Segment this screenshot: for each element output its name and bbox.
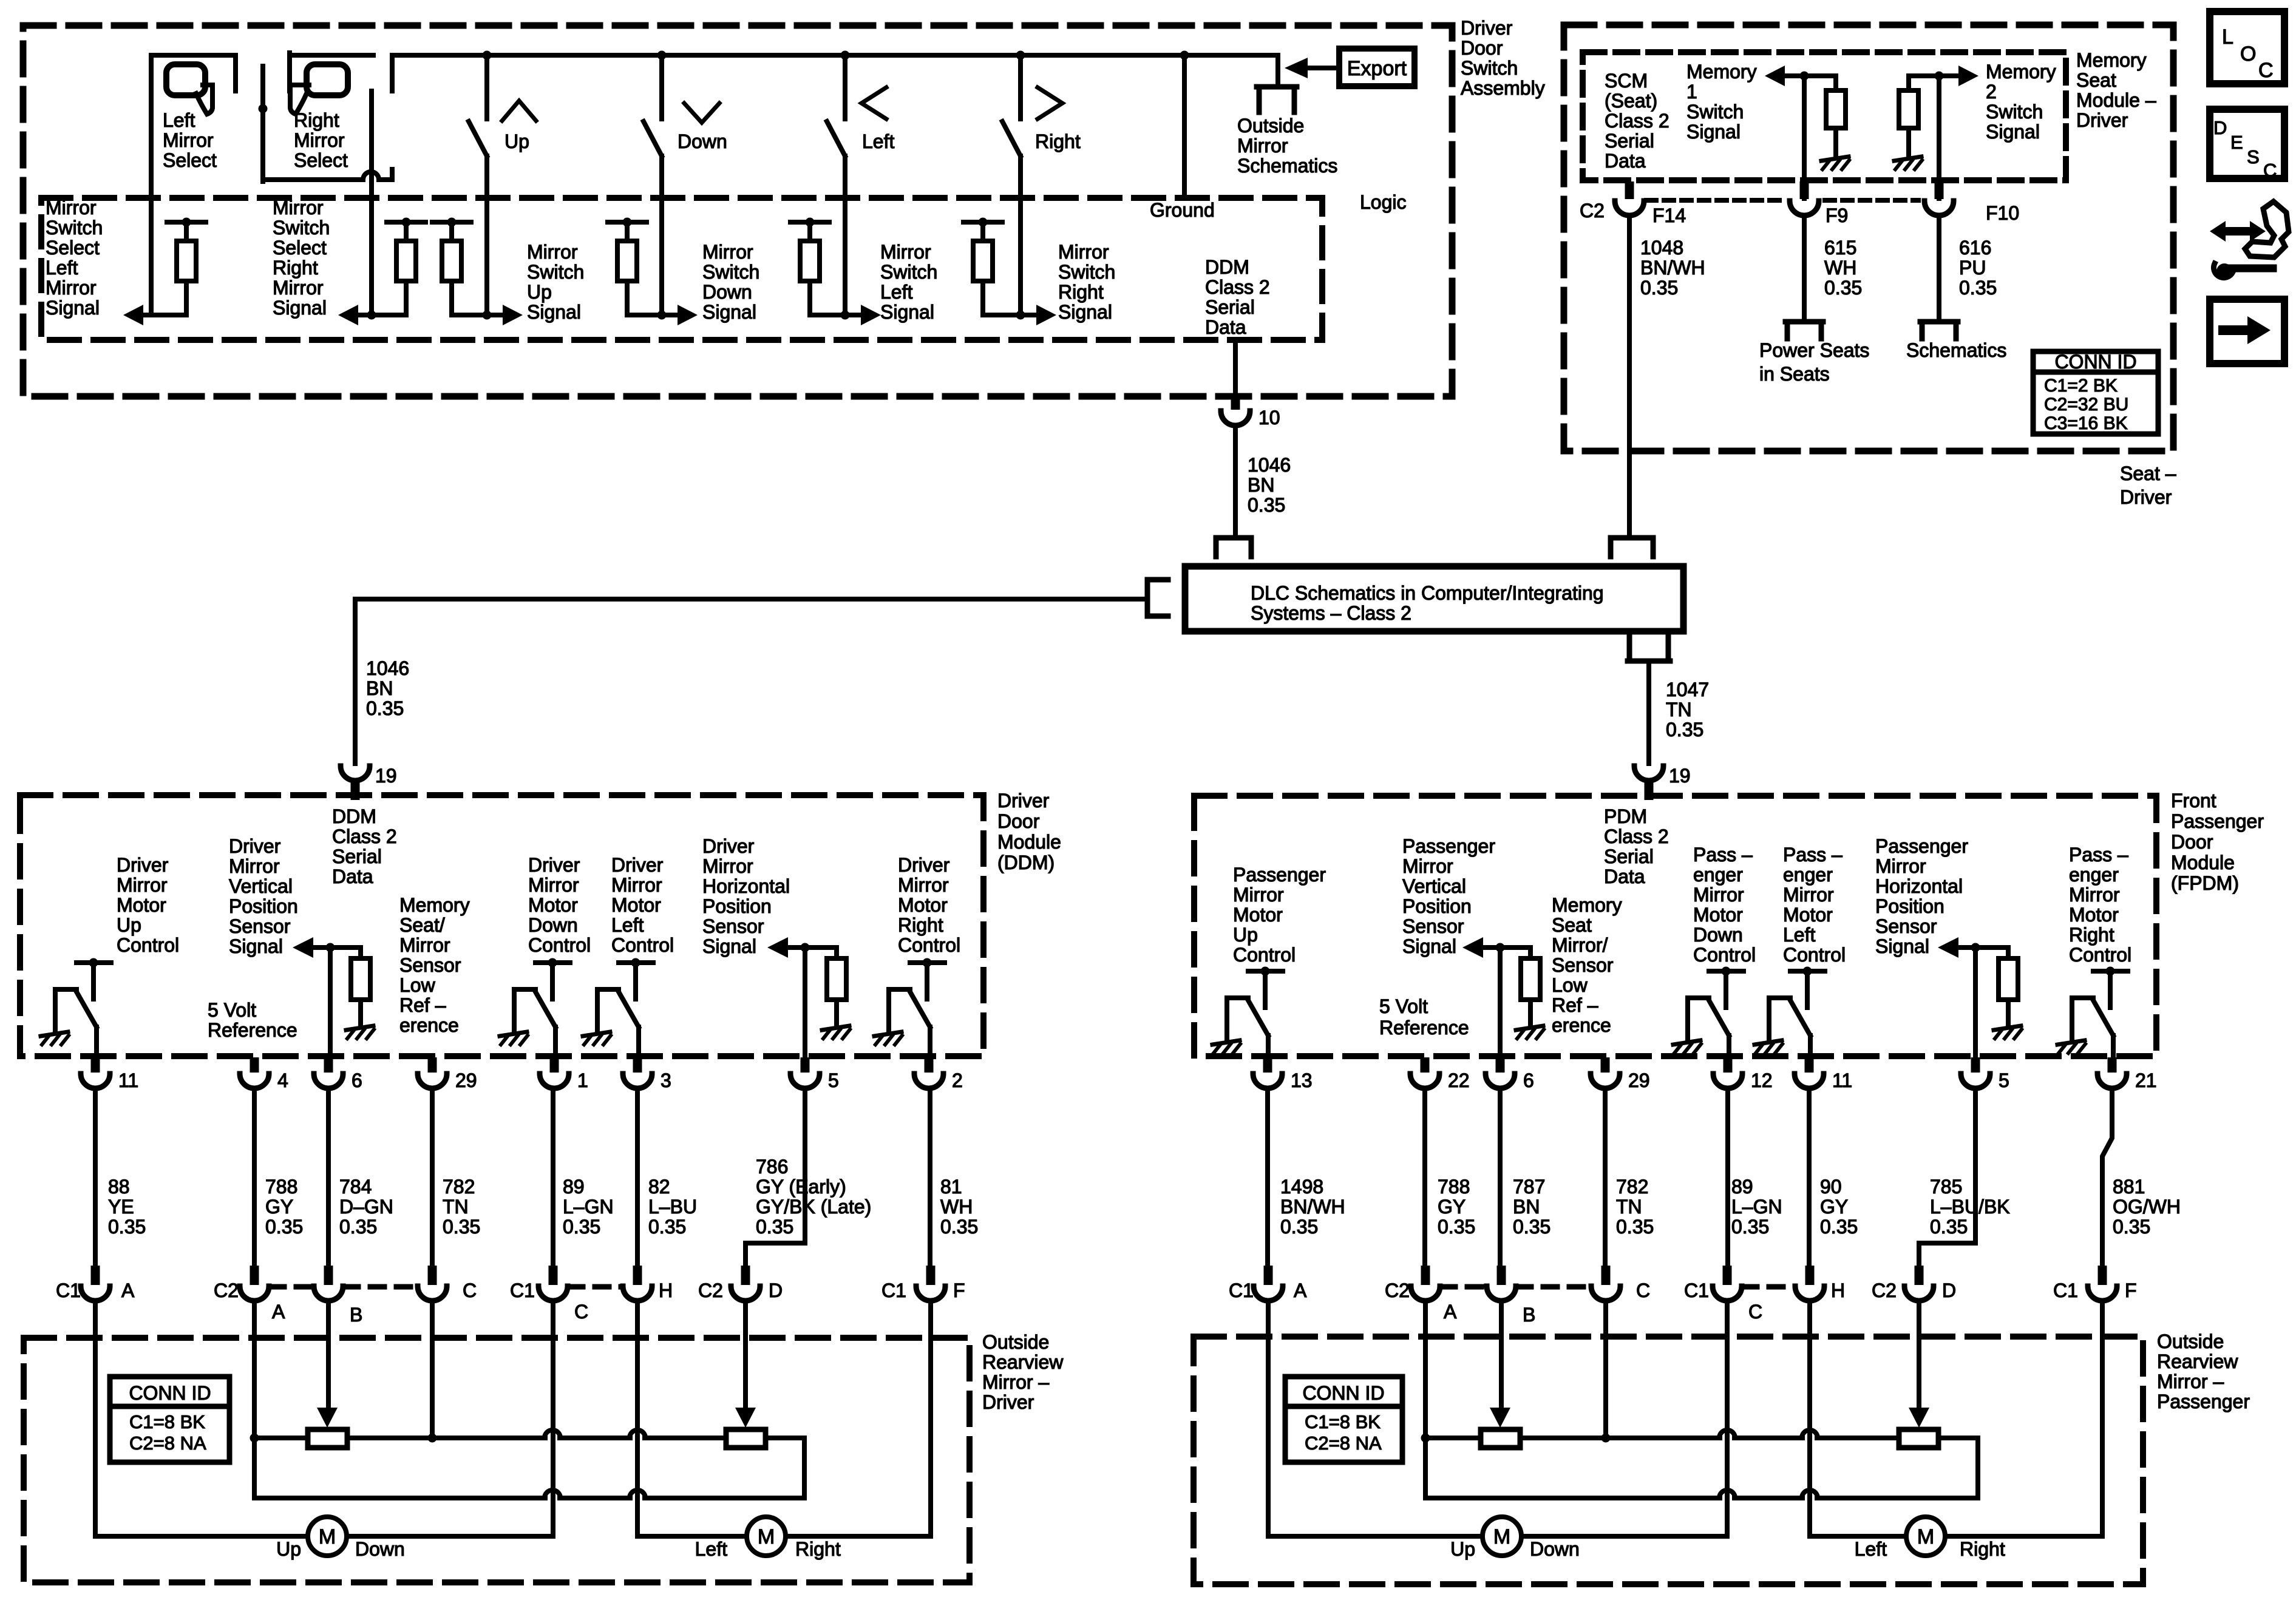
svg-text:H: H <box>659 1280 673 1301</box>
right mirror select wire/node <box>259 66 393 181</box>
svg-text:Module: Module <box>2171 852 2235 873</box>
DDM class 2 serial data label (logic) <box>1205 256 1270 338</box>
svg-text:13: 13 <box>1291 1070 1313 1091</box>
svg-text:1046: 1046 <box>1248 454 1291 476</box>
svg-text:enger: enger <box>1693 864 1743 886</box>
DDM pin 4 <box>240 1057 288 1091</box>
svg-text:615: 615 <box>1824 237 1856 259</box>
wire C1-C to up/down motor (pass) <box>1521 1302 1727 1536</box>
DDM pin 11 <box>81 1057 138 1091</box>
svg-text:Mirror: Mirror <box>1233 884 1284 906</box>
seat connector row dashed <box>1646 198 1918 203</box>
switch Right <box>1002 55 1081 320</box>
svg-text:C: C <box>1636 1280 1650 1301</box>
svg-text:Memory: Memory <box>1986 61 2056 83</box>
svg-text:(Seat): (Seat) <box>1605 90 1657 112</box>
svg-text:Up: Up <box>1233 924 1258 946</box>
svg-text:Class 2: Class 2 <box>1205 276 1270 298</box>
svg-text:784: 784 <box>339 1176 372 1198</box>
left/right motor (driver) <box>695 1517 841 1560</box>
svg-text:Schematics: Schematics <box>1237 155 1337 177</box>
connector C1 F (pass) <box>2053 1266 2137 1301</box>
svg-text:Signal: Signal <box>1058 301 1112 323</box>
svg-text:Low: Low <box>399 974 436 996</box>
connector C1 C (driver) <box>510 1266 588 1323</box>
svg-text:A: A <box>1444 1301 1457 1323</box>
svg-text:BN/WH: BN/WH <box>1280 1196 1345 1218</box>
svg-text:0.35: 0.35 <box>1666 719 1703 741</box>
svg-text:0.35: 0.35 <box>1820 1216 1858 1238</box>
vertical position pot (pass) <box>1481 1429 1520 1448</box>
svg-text:Left: Left <box>1783 924 1815 946</box>
DDM pin 6 <box>314 1057 362 1091</box>
wire 81 WH <box>930 1088 978 1266</box>
Front Passenger Door Module dashed box <box>1194 790 2264 1056</box>
connector H (pass) <box>1795 1266 1845 1301</box>
svg-text:5: 5 <box>828 1070 839 1091</box>
wire 785 L-BU/BK <box>1919 1088 2010 1266</box>
DDM pin 5 <box>790 1057 839 1091</box>
PDM serial data label <box>1604 805 1669 887</box>
svg-text:C: C <box>2263 160 2277 181</box>
svg-text:785: 785 <box>1930 1176 1962 1198</box>
svg-text:SCM: SCM <box>1605 70 1648 92</box>
svg-text:Signal: Signal <box>880 301 934 323</box>
svg-text:D: D <box>2213 117 2227 138</box>
svg-text:Left: Left <box>611 914 644 936</box>
wire D arrow into horizontal pot (pass) <box>1909 1302 1929 1428</box>
svg-text:Mirror/: Mirror/ <box>1552 934 1608 956</box>
svg-text:C2: C2 <box>1580 200 1605 222</box>
svg-text:Driver: Driver <box>898 854 950 876</box>
Outside Rearview Mirror Driver dashed box <box>24 1331 1064 1582</box>
svg-text:Pass –: Pass – <box>1693 844 1753 866</box>
svg-text:C2=32 BU: C2=32 BU <box>2044 395 2128 415</box>
svg-text:C1=8 BK: C1=8 BK <box>1305 1411 1381 1432</box>
arrow mirror switch Left signal <box>845 241 937 325</box>
svg-text:Vertical: Vertical <box>229 875 293 897</box>
svg-text:(FPDM): (FPDM) <box>2171 872 2239 894</box>
svg-text:Switch: Switch <box>1686 101 1744 123</box>
svg-text:H: H <box>1831 1280 1845 1301</box>
wire 89 L-GN (pass) <box>1728 1088 1782 1266</box>
svg-text:B: B <box>350 1304 362 1326</box>
svg-text:Driver: Driver <box>2120 486 2172 508</box>
svg-text:C1: C1 <box>881 1280 906 1301</box>
FPDM pin 29 <box>1591 1057 1650 1091</box>
svg-text:Memory: Memory <box>1552 894 1622 916</box>
svg-text:12: 12 <box>1751 1070 1773 1091</box>
svg-text:786: 786 <box>756 1156 788 1178</box>
svg-text:Horizontal: Horizontal <box>702 875 790 897</box>
svg-text:Down: Down <box>678 131 727 152</box>
wire 1498 BN/WH <box>1268 1088 1345 1266</box>
wire H to left/right motor (pass) <box>1810 1302 1906 1536</box>
svg-text:Driver: Driver <box>117 854 169 876</box>
wire label 1046 BN 0.35 (lower) <box>366 657 409 719</box>
connector C1 F (driver) <box>881 1266 965 1301</box>
passenger mirror motor right control switch <box>2057 844 2131 1056</box>
svg-text:2: 2 <box>952 1070 963 1091</box>
svg-text:BN: BN <box>1248 474 1274 496</box>
svg-text:Systems – Class 2: Systems – Class 2 <box>1251 602 1411 624</box>
svg-text:CONN ID: CONN ID <box>129 1382 211 1404</box>
svg-text:Vertical: Vertical <box>1402 875 1466 897</box>
connector C2 A (pass) <box>1385 1266 1457 1323</box>
svg-text:Sensor: Sensor <box>1402 915 1464 937</box>
bracket below DLC (1047) <box>1628 635 1670 764</box>
svg-text:Position: Position <box>1875 895 1944 917</box>
wire 787 BN <box>1500 1088 1550 1266</box>
svg-text:TN: TN <box>443 1196 469 1218</box>
svg-text:WH: WH <box>940 1196 973 1218</box>
svg-text:Logic: Logic <box>1360 191 1407 213</box>
connector C1 A (driver) <box>56 1266 135 1301</box>
bus junction at 1681 <box>1016 51 1025 60</box>
CONN ID table (seat) <box>2033 351 2158 434</box>
svg-text:C: C <box>574 1301 588 1323</box>
connector C (driver) <box>418 1266 477 1301</box>
svg-text:Position: Position <box>1402 895 1472 917</box>
svg-text:Pass –: Pass – <box>2069 844 2128 866</box>
svg-text:L–BU/BK: L–BU/BK <box>1930 1196 2010 1218</box>
wire C to pot bus (pass) <box>1603 1302 1608 1438</box>
svg-text:GY: GY <box>1820 1196 1848 1218</box>
low ref bottom line (driver) <box>254 1490 804 1498</box>
svg-text:Data: Data <box>332 866 373 887</box>
svg-text:Control: Control <box>1783 944 1846 966</box>
svg-text:Mirror: Mirror <box>1058 241 1109 263</box>
svg-text:Serial: Serial <box>1605 130 1654 152</box>
svg-text:Mirror: Mirror <box>611 874 662 896</box>
svg-text:0.35: 0.35 <box>1616 1216 1654 1238</box>
svg-text:Motor: Motor <box>117 894 166 916</box>
wire A to up/down motor (pass) <box>1268 1302 1483 1536</box>
svg-text:Sensor: Sensor <box>1875 915 1937 937</box>
wire label 1048 BN/WH 0.35 <box>1640 237 1705 299</box>
wire B arrow into vertical pot (pass) <box>1490 1302 1510 1428</box>
svg-text:TN: TN <box>1666 699 1692 720</box>
wire H to left/right motor (driver) <box>637 1302 747 1536</box>
svg-text:YE: YE <box>108 1196 134 1218</box>
svg-text:Driver: Driver <box>1461 17 1513 39</box>
5 volt reference label (DDM) <box>208 999 297 1041</box>
Driver Door Switch Assembly dashed box <box>23 17 1545 396</box>
svg-text:C3=16 BK: C3=16 BK <box>2044 413 2128 433</box>
wire 782 TN <box>432 1088 480 1266</box>
svg-text:29: 29 <box>455 1070 477 1091</box>
svg-text:L–BU: L–BU <box>648 1196 697 1218</box>
svg-text:Signal: Signal <box>229 935 283 957</box>
svg-text:Seat: Seat <box>1552 914 1592 936</box>
svg-text:WH: WH <box>1824 257 1856 279</box>
svg-text:Right: Right <box>2069 924 2114 946</box>
svg-text:F10: F10 <box>1986 202 2019 224</box>
svg-text:Door: Door <box>2171 831 2213 853</box>
svg-text:Outside: Outside <box>982 1331 1049 1353</box>
svg-text:Signal: Signal <box>1986 121 2040 143</box>
svg-text:C: C <box>2258 59 2274 82</box>
svg-text:Sensor: Sensor <box>229 915 291 937</box>
wire 782 TN (pass) <box>1605 1088 1654 1266</box>
svg-text:Passenger: Passenger <box>1875 835 1968 857</box>
svg-text:C2: C2 <box>214 1280 239 1301</box>
wire A to up/down motor (driver) <box>95 1302 308 1536</box>
driver mirror vertical position sensor <box>229 835 374 1056</box>
switch Up <box>469 55 536 320</box>
svg-text:Memory: Memory <box>2076 49 2147 71</box>
wire C1-C to up/down motor (driver) <box>347 1302 553 1536</box>
svg-text:Switch: Switch <box>1461 57 1518 79</box>
svg-text:Control: Control <box>528 934 591 956</box>
svg-text:Horizontal: Horizontal <box>1875 875 1963 897</box>
driver mirror motor up control switch <box>41 854 179 1056</box>
svg-text:BN: BN <box>366 677 393 699</box>
svg-text:0.35: 0.35 <box>1930 1216 1968 1238</box>
svg-text:F: F <box>2125 1280 2137 1301</box>
svg-text:Right: Right <box>1960 1538 2005 1560</box>
svg-text:Motor: Motor <box>611 894 661 916</box>
svg-text:Signal: Signal <box>1402 935 1456 957</box>
svg-text:erence: erence <box>1552 1014 1611 1036</box>
svg-text:M: M <box>1493 1525 1510 1548</box>
svg-text:0.35: 0.35 <box>339 1216 377 1238</box>
svg-text:Control: Control <box>611 934 674 956</box>
resistor R up <box>432 218 487 316</box>
svg-text:Control: Control <box>1693 944 1756 966</box>
DLC left bracket <box>1147 580 1168 616</box>
svg-text:1: 1 <box>577 1070 588 1091</box>
svg-text:A: A <box>121 1280 135 1301</box>
passenger mirror motor left control switch <box>1754 844 1846 1056</box>
svg-text:Control: Control <box>117 934 179 956</box>
serial data wire to connector 10 <box>1221 340 1280 534</box>
svg-text:O: O <box>2240 42 2256 66</box>
connector 19 driver <box>341 765 397 800</box>
bus wire <box>392 55 1278 91</box>
svg-text:S: S <box>2247 146 2260 168</box>
wire 1046 from DDM to DLC <box>355 599 1147 764</box>
svg-text:M: M <box>1917 1525 1934 1548</box>
svg-text:0.35: 0.35 <box>366 697 404 719</box>
svg-text:Control: Control <box>2069 944 2131 966</box>
svg-text:Left: Left <box>163 109 195 131</box>
svg-text:6: 6 <box>352 1070 362 1091</box>
FPDM pin 12 <box>1713 1057 1773 1091</box>
DDM pin 3 <box>623 1057 671 1091</box>
svg-text:Mirror: Mirror <box>1875 855 1926 877</box>
svg-text:Left: Left <box>46 257 78 279</box>
svg-text:Down: Down <box>355 1538 405 1560</box>
svg-text:Mirror: Mirror <box>1237 135 1288 157</box>
svg-text:Data: Data <box>1604 866 1645 887</box>
arrow mirror switch select right signal <box>273 197 372 325</box>
wire C2-A to pot bus (pass) <box>1421 1302 1430 1498</box>
svg-text:OG/WH: OG/WH <box>2113 1196 2181 1218</box>
svg-text:Mirror: Mirror <box>1693 884 1744 906</box>
svg-text:F9: F9 <box>1826 205 1848 226</box>
svg-text:Mirror: Mirror <box>2069 884 2120 906</box>
svg-text:Switch: Switch <box>1986 101 2043 123</box>
svg-text:C: C <box>1748 1301 1762 1323</box>
wire C2-A to pot bus (driver) <box>250 1302 259 1498</box>
svg-text:Ref –: Ref – <box>1552 994 1598 1016</box>
svg-text:0.35: 0.35 <box>1280 1216 1318 1238</box>
svg-text:Up: Up <box>276 1538 301 1560</box>
svg-text:1498: 1498 <box>1280 1176 1323 1198</box>
wire label 615 WH 0.35 <box>1824 237 1862 299</box>
svg-text:Driver: Driver <box>229 835 281 857</box>
svg-text:D–GN: D–GN <box>339 1196 393 1218</box>
svg-text:Low: Low <box>1552 974 1588 996</box>
vertical position pot (driver) <box>308 1429 347 1448</box>
pot bus (driver) <box>254 1430 726 1443</box>
export arrow and box <box>1285 49 1415 86</box>
memory 2 switch signal <box>1894 61 2056 198</box>
svg-text:82: 82 <box>648 1176 670 1198</box>
wire 89 L-GN <box>553 1088 614 1266</box>
svg-text:788: 788 <box>1438 1176 1470 1198</box>
svg-text:Driver: Driver <box>528 854 580 876</box>
svg-text:0.35: 0.35 <box>265 1216 303 1238</box>
svg-text:L–GN: L–GN <box>1731 1196 1782 1218</box>
svg-text:Right: Right <box>294 109 339 131</box>
connector B (driver) <box>314 1266 362 1326</box>
svg-text:C1=8 BK: C1=8 BK <box>129 1411 205 1432</box>
svg-text:erence: erence <box>399 1014 459 1036</box>
svg-text:89: 89 <box>563 1176 585 1198</box>
svg-text:782: 782 <box>443 1176 475 1198</box>
CONN ID table (mirror pass) <box>1285 1377 1402 1462</box>
svg-text:enger: enger <box>2069 864 2119 886</box>
svg-text:C1: C1 <box>510 1280 535 1301</box>
svg-text:Motor: Motor <box>898 894 948 916</box>
FPDM pin 13 <box>1253 1057 1313 1091</box>
svg-text:C1=2 BK: C1=2 BK <box>2044 376 2118 396</box>
svg-text:Motor: Motor <box>1693 904 1743 926</box>
FPDM pin 11 <box>1795 1057 1852 1091</box>
svg-text:Pass –: Pass – <box>1783 844 1843 866</box>
svg-text:1047: 1047 <box>1666 679 1709 700</box>
svg-text:19: 19 <box>375 765 397 787</box>
svg-text:Serial: Serial <box>1604 846 1654 867</box>
resistor R select-right <box>372 218 426 316</box>
svg-text:C2=8 NA: C2=8 NA <box>129 1432 206 1454</box>
memory seat mirror/sensor low reference label (FPDM) <box>1552 894 1622 1036</box>
svg-text:Left: Left <box>695 1538 727 1560</box>
svg-text:0.35: 0.35 <box>1640 277 1678 299</box>
svg-text:Mirror: Mirror <box>117 874 168 896</box>
svg-text:Class 2: Class 2 <box>1604 825 1669 847</box>
connector 19 passenger <box>1634 765 1691 800</box>
arrow mirror switch Right signal <box>1021 241 1115 325</box>
right mirror select switch <box>290 53 373 171</box>
svg-text:Mirror: Mirror <box>880 241 931 263</box>
svg-text:Motor: Motor <box>528 894 578 916</box>
svg-text:19: 19 <box>1669 765 1691 787</box>
bracket above DLC (1046) <box>1216 538 1251 557</box>
svg-text:enger: enger <box>1783 864 1833 886</box>
LOC icon <box>2210 12 2284 84</box>
DDM serial data label <box>332 805 397 887</box>
svg-text:5 Volt: 5 Volt <box>208 999 256 1021</box>
5 volt reference label (FPDM) <box>1379 995 1469 1039</box>
svg-text:0.35: 0.35 <box>940 1216 978 1238</box>
passenger mirror horizontal position sensor <box>1875 835 2022 1056</box>
svg-text:Mirror: Mirror <box>702 241 753 263</box>
svg-text:Mirror: Mirror <box>273 277 324 299</box>
svg-text:C: C <box>463 1280 477 1301</box>
svg-text:Data: Data <box>1205 316 1246 338</box>
svg-text:Driver: Driver <box>611 854 664 876</box>
svg-text:10: 10 <box>1258 407 1280 429</box>
svg-text:88: 88 <box>108 1176 130 1198</box>
connector C2 D (pass) <box>1872 1266 1956 1301</box>
svg-text:Signal: Signal <box>702 301 756 323</box>
svg-text:D: D <box>769 1280 783 1301</box>
svg-text:Signal: Signal <box>527 301 581 323</box>
wire 881 OG/WH <box>2102 1088 2181 1266</box>
svg-text:Passenger: Passenger <box>1233 864 1326 886</box>
svg-text:Seat/: Seat/ <box>399 914 445 936</box>
svg-text:Down: Down <box>702 281 752 303</box>
connector H (driver) <box>623 1266 673 1301</box>
svg-text:0.35: 0.35 <box>1959 277 1997 299</box>
svg-text:Mirror: Mirror <box>527 241 578 263</box>
switch Left <box>827 55 894 320</box>
svg-text:Switch: Switch <box>702 261 759 283</box>
svg-text:TN: TN <box>1616 1196 1642 1218</box>
svg-text:Assembly: Assembly <box>1461 77 1545 99</box>
svg-text:Export: Export <box>1347 57 1407 80</box>
arrow mirror switch Down signal <box>662 241 759 325</box>
svg-text:L–GN: L–GN <box>563 1196 614 1218</box>
svg-text:Rearview: Rearview <box>2157 1351 2238 1372</box>
wire 88 YE <box>95 1088 146 1266</box>
svg-text:Select: Select <box>294 149 348 171</box>
wire F to left/right motor (pass) <box>1945 1302 2102 1536</box>
DDM pin 2 <box>914 1057 963 1091</box>
svg-text:C2: C2 <box>1385 1280 1410 1301</box>
DDM pin 29 <box>418 1057 477 1091</box>
bus junction at 802 <box>483 51 492 60</box>
svg-text:Left: Left <box>1855 1538 1887 1560</box>
left mirror select switch <box>151 55 236 315</box>
arrow icon <box>2210 299 2284 364</box>
svg-text:Driver: Driver <box>2076 109 2128 131</box>
bus junction at 1392 <box>841 51 850 60</box>
svg-text:Driver: Driver <box>997 790 1050 812</box>
svg-text:6: 6 <box>1523 1070 1534 1091</box>
driver mirror motor right control switch <box>874 854 960 1056</box>
svg-text:Data: Data <box>1605 150 1646 172</box>
svg-text:4: 4 <box>277 1070 288 1091</box>
svg-text:29: 29 <box>1628 1070 1650 1091</box>
FPDM pin 6 <box>1486 1057 1534 1091</box>
svg-text:0.35: 0.35 <box>648 1216 686 1238</box>
svg-text:Outside: Outside <box>1237 115 1304 137</box>
Seat Driver dashed box <box>1564 25 2176 508</box>
wire label 1046 BN 0.35 (upper) <box>1248 454 1291 516</box>
connector C1 C (pass) <box>1684 1266 1762 1323</box>
svg-text:C2=8 NA: C2=8 NA <box>1305 1432 1382 1454</box>
svg-text:90: 90 <box>1820 1176 1842 1198</box>
wire label 1047 TN 0.35 <box>1666 679 1709 741</box>
svg-text:D: D <box>1942 1280 1956 1301</box>
svg-text:Switch: Switch <box>880 261 937 283</box>
svg-text:Up: Up <box>1450 1538 1475 1560</box>
svg-text:CONN ID: CONN ID <box>1302 1382 1384 1404</box>
